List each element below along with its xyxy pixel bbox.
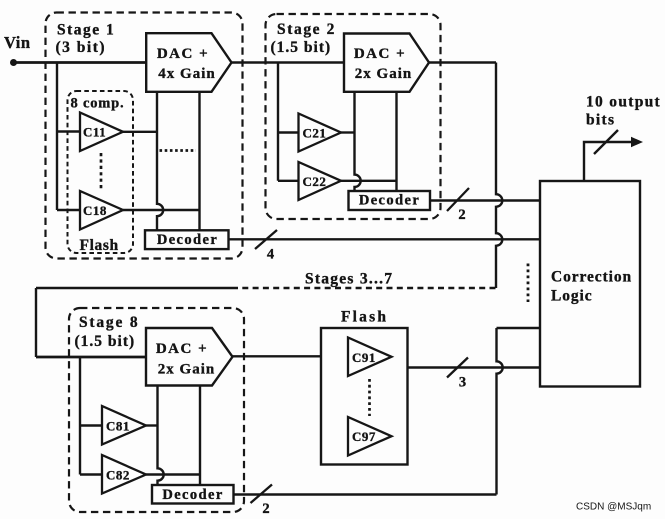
svg-text:DAC +: DAC + [354, 46, 406, 62]
svg-text:Vin: Vin [4, 33, 31, 52]
svg-text:DAC +: DAC + [156, 341, 208, 357]
svg-text:C22: C22 [303, 174, 327, 189]
svg-text:2x Gain: 2x Gain [158, 362, 215, 378]
svg-text:Decoder: Decoder [359, 193, 420, 209]
svg-text:Logic: Logic [551, 288, 593, 305]
svg-text:2: 2 [458, 207, 465, 223]
svg-text:DAC +: DAC + [157, 46, 209, 62]
svg-text:4: 4 [267, 247, 274, 263]
svg-text:bits: bits [586, 112, 615, 129]
svg-text:C18: C18 [83, 203, 107, 218]
svg-text:Decoder: Decoder [157, 232, 218, 248]
svg-text:Decoder: Decoder [162, 487, 223, 503]
svg-text:Flash: Flash [341, 309, 388, 326]
svg-text:(1.5 bit): (1.5 bit) [271, 39, 332, 56]
svg-text:3: 3 [459, 375, 466, 391]
svg-text:(3 bit): (3 bit) [56, 39, 107, 56]
svg-text:Correction: Correction [551, 269, 632, 286]
svg-text:8 comp.: 8 comp. [71, 96, 125, 112]
svg-text:Stage 1: Stage 1 [57, 22, 115, 39]
svg-text:Stages 3...7: Stages 3...7 [305, 271, 393, 288]
svg-text:2: 2 [262, 501, 269, 517]
svg-text:Stage 2: Stage 2 [277, 21, 336, 38]
svg-text:10 output: 10 output [586, 94, 661, 111]
svg-text:C21: C21 [303, 126, 327, 141]
svg-text:C82: C82 [106, 468, 130, 483]
svg-text:Stage 8: Stage 8 [79, 314, 139, 331]
svg-text:2x Gain: 2x Gain [355, 66, 412, 82]
svg-text:Flash: Flash [80, 237, 119, 254]
svg-text:(1.5 bit): (1.5 bit) [75, 333, 136, 350]
svg-text:C81: C81 [106, 419, 130, 434]
svg-text:C11: C11 [83, 125, 106, 140]
svg-text:C97: C97 [352, 429, 376, 444]
svg-text:4x Gain: 4x Gain [158, 66, 215, 82]
svg-text:CSDN @MSJqm: CSDN @MSJqm [576, 502, 651, 513]
svg-text:C91: C91 [352, 350, 376, 365]
